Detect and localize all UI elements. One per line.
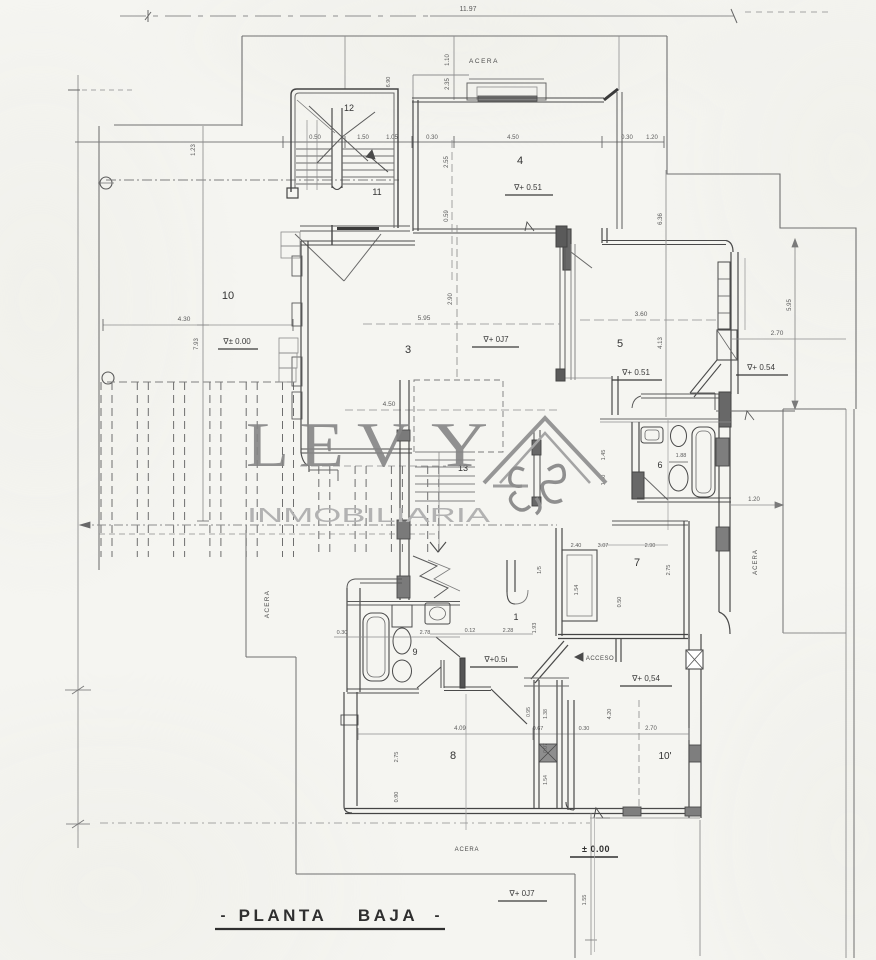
dim line y818 bottom: [590, 818, 700, 956]
room5 corner nw: [602, 228, 607, 243]
room13 label: [458, 463, 468, 473]
svg-text:2.55: 2.55: [444, 156, 450, 168]
svg-text:ACERA: ACERA: [264, 590, 271, 618]
bath6 sink: [641, 427, 663, 443]
svg-text:1.54: 1.54: [543, 775, 549, 785]
wall y412 right: [716, 258, 795, 420]
bath6 west wall: [632, 422, 644, 499]
dims room8 vertical: [394, 694, 466, 830]
room3 left wall: [301, 241, 308, 453]
svg-text:5: 5: [617, 338, 623, 350]
room3 left windows: [292, 256, 302, 419]
svg-text:0.90: 0.90: [394, 792, 400, 803]
stair treads: [296, 120, 394, 190]
svg-text:5.95: 5.95: [787, 299, 793, 311]
flue walls: [534, 680, 562, 808]
bath9 west wall: [347, 579, 402, 692]
room8 label: [450, 750, 456, 762]
dim 1.20 right: [730, 497, 783, 508]
dim vertical room3 x457: [448, 225, 457, 380]
bath6 east jamb blocks: [716, 438, 729, 551]
svg-text:9: 9: [412, 647, 417, 657]
bath6 floor line: [600, 419, 731, 422]
room3 top wall: [301, 241, 415, 245]
svg-text:11.97: 11.97: [460, 6, 477, 13]
room3 bottom wall: [301, 449, 412, 481]
bath9 sink: [425, 603, 450, 624]
room4 top wall: [412, 89, 618, 102]
room5 door swing nw: [571, 252, 592, 268]
dim vertical x591 bottom: [582, 813, 597, 955]
svg-text:∇+ 0.51: ∇+ 0.51: [513, 183, 542, 192]
dim connector x345: [345, 36, 392, 89]
svg-text:L: L: [246, 410, 289, 480]
svg-text:2.90: 2.90: [645, 543, 656, 549]
room10 east wall: [689, 634, 701, 818]
svg-text:3.60: 3.60: [635, 311, 648, 318]
site outline top-left step: [99, 36, 667, 570]
watermark logo curls: [510, 465, 565, 514]
dimension line y142 across top: [75, 135, 664, 148]
dimension line top 11.97: [120, 6, 830, 23]
svg-text:ACCESO: ACCESO: [586, 656, 614, 662]
level mark pm000 bottom: [570, 844, 618, 857]
room 4 label: [517, 155, 523, 167]
dim vertical x203: [191, 126, 209, 521]
svg-text:∇+ 0J7: ∇+ 0J7: [482, 335, 509, 344]
svg-text:∇+ 0.51: ∇+ 0.51: [621, 368, 650, 377]
title planta baja: [215, 906, 445, 929]
svg-text:8: 8: [450, 750, 456, 762]
bath6 south wall: [637, 498, 731, 502]
hall west chamfer: [417, 637, 527, 724]
wall x619 northeast: [617, 36, 622, 229]
room10 south hatch: [623, 807, 701, 816]
svg-text:4.30: 4.30: [178, 316, 191, 323]
svg-text:12: 12: [344, 103, 354, 113]
room8 south wall: [345, 809, 574, 814]
bath6 door swing: [644, 477, 668, 500]
svg-text:1.45: 1.45: [601, 450, 607, 461]
level mark room4: [505, 183, 553, 195]
room3 right wall: [556, 226, 612, 381]
room4 bottom wall: [413, 222, 558, 233]
bath9 north wall: [347, 602, 460, 606]
svg-text:0.07: 0.07: [543, 743, 549, 753]
svg-text:1.38: 1.38: [543, 709, 549, 719]
column circle A: [98, 177, 114, 189]
level mark 0J7 bottom: [498, 889, 547, 901]
svg-text:0.30: 0.30: [579, 726, 590, 732]
svg-text:ACERA: ACERA: [455, 847, 480, 853]
room 10 label: [222, 290, 234, 302]
svg-text:Y: Y: [431, 410, 488, 480]
bath9 toilet: [392, 605, 412, 654]
svg-text:1.10: 1.10: [445, 54, 451, 66]
room5 east window: [717, 262, 737, 360]
stair direction arrow: [366, 150, 388, 172]
level mark hall: [470, 655, 518, 667]
room7 east wall: [684, 521, 689, 639]
dim tick x454 top: [445, 36, 454, 100]
dim room4 vertical x452: [444, 140, 452, 280]
pergola top dash line y382: [107, 382, 446, 466]
svg-text:11: 11: [372, 187, 381, 197]
stair outer walls: [291, 89, 398, 228]
room5 label: [617, 338, 623, 350]
dim 0.30 bath9: [334, 630, 460, 637]
level mark room3: [472, 335, 519, 347]
svg-text:ACERA: ACERA: [753, 549, 759, 575]
room10 label: [658, 751, 671, 762]
room7 south wall: [558, 635, 688, 639]
site outline right side: [783, 409, 854, 958]
svg-text:10': 10': [658, 751, 671, 762]
svg-text:1.54: 1.54: [574, 585, 580, 596]
svg-text:∇+ 0J7: ∇+ 0J7: [508, 889, 535, 898]
dim 5.95 right: [787, 239, 798, 409]
room10 south wall: [574, 809, 701, 814]
svg-text:4.50: 4.50: [507, 135, 519, 141]
svg-text:-: -: [435, 907, 440, 924]
svg-text:0.30: 0.30: [621, 135, 633, 141]
dim line 4.30: [103, 316, 293, 331]
svg-text:1/5: 1/5: [537, 566, 543, 574]
svg-text:7.93: 7.93: [194, 338, 200, 350]
column circle B: [102, 372, 114, 384]
room7 label: [634, 557, 640, 569]
level mark +054 top right: [736, 363, 788, 375]
wall stub x618: [616, 639, 621, 662]
stair center rails: [332, 108, 342, 190]
svg-text:4: 4: [517, 155, 523, 167]
flue top wall: [524, 678, 569, 686]
stair left jamb block: [287, 188, 298, 198]
svg-text:∇+ 0,54: ∇+ 0,54: [631, 674, 660, 683]
svg-text:1.88: 1.88: [676, 453, 687, 459]
svg-text:∇+0.5ı: ∇+0.5ı: [483, 655, 507, 664]
up arrow bottom wall: [594, 808, 610, 818]
text ACERA bottom: [455, 847, 480, 853]
svg-text:3.07: 3.07: [598, 543, 609, 549]
room5 east wall upper: [731, 252, 738, 394]
terrace outline bottom: [246, 530, 575, 958]
room4 left wall: [413, 100, 418, 231]
flue hatch: [539, 744, 557, 762]
svg-text:0.95: 0.95: [526, 707, 532, 717]
svg-text:-: -: [221, 907, 226, 924]
room10 east window x: [686, 650, 703, 669]
room7 closet: [562, 550, 597, 621]
svg-text:10: 10: [222, 290, 234, 302]
room3 outside steps: [279, 232, 300, 382]
bath6 dims: [601, 420, 686, 530]
dim 5.95 room3: [363, 315, 560, 324]
svg-text:4.50: 4.50: [383, 401, 396, 408]
svg-text:BAJA: BAJA: [358, 906, 418, 925]
dim 2.70 right: [731, 330, 846, 339]
svg-text:2.35: 2.35: [445, 78, 451, 90]
wall x615 mid: [612, 376, 618, 415]
bath6 bathtub: [692, 427, 715, 497]
bath9 tub: [363, 613, 389, 681]
dim 4.50 room3: [345, 401, 560, 410]
room5 top wall: [602, 241, 733, 253]
svg-text:0.50: 0.50: [617, 597, 623, 608]
bath9 south wall: [347, 689, 419, 693]
svg-text:7: 7: [634, 557, 640, 569]
bath6 east wall: [719, 394, 730, 612]
svg-text:0.59: 0.59: [444, 210, 450, 222]
porch sill hatch: [478, 96, 537, 101]
svg-text:6: 6: [657, 460, 662, 470]
bath9 label: [412, 647, 417, 657]
core stair treads down: [415, 452, 475, 552]
dim labels hall: [430, 566, 543, 634]
svg-text:ACERA: ACERA: [469, 58, 499, 65]
svg-text:2.75: 2.75: [394, 752, 400, 763]
property line left x78: [65, 75, 132, 848]
svg-text:0.30: 0.30: [337, 630, 348, 636]
room4 door post: [563, 229, 571, 270]
site outline top-right steps: [667, 36, 856, 409]
stair cross marks: [297, 100, 375, 163]
core break zigzag: [413, 556, 460, 598]
svg-text:5.95: 5.95: [418, 315, 431, 322]
svg-text:0.30: 0.30: [426, 135, 438, 141]
dim line y734: [358, 726, 689, 740]
svg-text:2.70: 2.70: [645, 726, 657, 732]
hall angled wall: [531, 641, 568, 683]
svg-text:4.20: 4.20: [607, 709, 613, 720]
svg-text:0.12: 0.12: [465, 628, 476, 634]
svg-text:2.40: 2.40: [571, 543, 582, 549]
room1 label: [513, 612, 518, 622]
svg-text:1.20: 1.20: [748, 497, 760, 503]
svg-text:1: 1: [513, 612, 518, 622]
svg-text:2.75: 2.75: [666, 565, 672, 576]
text ACERA top: [469, 58, 499, 65]
stair bottom wall: [300, 226, 410, 231]
room5 bay diagonal: [690, 360, 721, 410]
section dash line y183: [106, 179, 399, 181]
watermark INMOBILIARIA: [247, 505, 491, 527]
bath6 label: [657, 460, 662, 470]
core right wall upper: [532, 430, 541, 506]
bath9 bidet: [393, 660, 412, 682]
room 12 label: [344, 103, 354, 113]
flue dims: [526, 707, 549, 785]
level mark +-0.00 left: [218, 337, 258, 349]
svg-text:3: 3: [405, 344, 411, 356]
svg-text:± 0.00: ± 0.00: [582, 844, 610, 854]
svg-text:INMOBILIARIA: INMOBILIARIA: [247, 505, 491, 527]
pergola dash line y534: [99, 533, 438, 535]
core left wall: [397, 380, 410, 600]
core niche wall: [507, 560, 528, 604]
room7 north wall: [612, 521, 688, 525]
watermark logo roof: [484, 418, 606, 486]
core stair arrow: [430, 542, 446, 552]
room10 west wall: [566, 700, 574, 810]
room7 dims: [571, 543, 672, 607]
svg-text:1.93: 1.93: [532, 623, 538, 634]
svg-text:6.90: 6.90: [386, 77, 392, 88]
wall corner to room10e: [719, 612, 730, 634]
svg-text:2.28: 2.28: [503, 628, 514, 634]
acceso arrow: [575, 653, 614, 662]
room10 east wall hatch: [689, 745, 701, 762]
text ACERA left vertical: [264, 590, 271, 618]
svg-text:PLANTA: PLANTA: [239, 906, 328, 925]
level mark +054 mid: [620, 674, 672, 686]
watermark LEVY: [246, 410, 488, 480]
svg-text:∇± 0.00: ∇± 0.00: [222, 337, 251, 346]
svg-text:1.23: 1.23: [191, 144, 197, 156]
svg-text:4.13: 4.13: [658, 337, 664, 349]
pergola dash line y525: [80, 522, 557, 528]
room8 west wall: [341, 692, 358, 813]
bath6 jamb ne: [719, 392, 731, 427]
text ACERA right vertical: [753, 549, 759, 575]
svg-text:∇+ 0.54: ∇+ 0.54: [746, 363, 775, 372]
svg-text:2.78: 2.78: [420, 630, 431, 636]
room3 dashed opening: [414, 380, 503, 452]
svg-text:1.05: 1.05: [386, 135, 398, 141]
dim vertical room5 x666: [658, 170, 666, 417]
svg-text:2.90: 2.90: [448, 293, 454, 305]
svg-text:1.20: 1.20: [646, 135, 658, 141]
svg-text:6.36: 6.36: [658, 213, 664, 225]
svg-text:1.55: 1.55: [582, 895, 588, 906]
svg-text:1.50: 1.50: [357, 135, 369, 141]
room3 label: [405, 344, 411, 356]
pergola dashed beams: [101, 382, 439, 557]
dim 4.20 room10: [607, 700, 639, 808]
svg-text:0.50: 0.50: [309, 135, 321, 141]
dim dash line y823: [100, 822, 590, 824]
stair door swings: [295, 225, 381, 281]
porch steps: [413, 75, 546, 100]
bath6 north wall: [632, 394, 719, 408]
svg-text:V: V: [357, 410, 410, 480]
svg-text:4.09: 4.09: [454, 726, 466, 732]
level mark room5: [612, 368, 662, 380]
room 11 label: [372, 187, 381, 197]
bath6 toilet: [669, 426, 688, 492]
svg-text:E: E: [299, 410, 344, 480]
svg-text:2.70: 2.70: [771, 330, 784, 337]
dim 3.60 room5: [580, 311, 718, 320]
core wall x552: [556, 528, 562, 636]
